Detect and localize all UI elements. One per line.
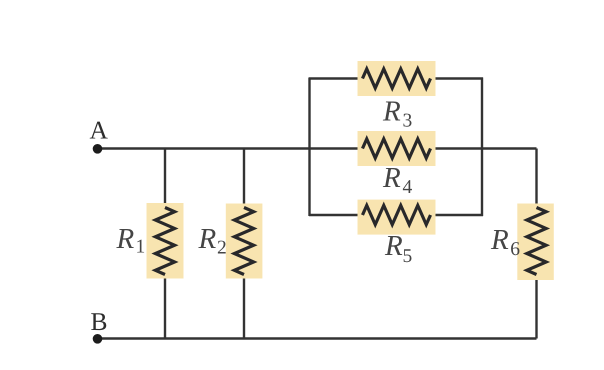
wire R6 branch top bbox=[535, 149, 537, 210]
resistor R3 bbox=[358, 61, 436, 96]
svg-text:4: 4 bbox=[403, 177, 413, 198]
wire R1 junction to R2 junction bbox=[165, 147, 244, 149]
label R2 bbox=[198, 223, 227, 259]
label R5 bbox=[384, 230, 412, 267]
svg-text:1: 1 bbox=[136, 237, 146, 258]
wire R2 branch bottom bbox=[243, 274, 245, 339]
resistor R4 bbox=[358, 131, 436, 166]
wire A to R1 junction bbox=[97, 147, 165, 149]
resistor R6 bbox=[517, 204, 554, 281]
wire parallel-group right vertical bbox=[481, 78, 483, 217]
wire R3 branch right bbox=[431, 77, 484, 79]
svg-text:R: R bbox=[490, 224, 509, 256]
wire R5 branch left bbox=[309, 214, 363, 216]
wire R2 branch top bbox=[243, 149, 245, 210]
svg-text:A: A bbox=[90, 116, 109, 145]
svg-text:5: 5 bbox=[403, 246, 413, 267]
node A bbox=[93, 144, 103, 154]
label R3 bbox=[382, 96, 412, 132]
svg-text:R: R bbox=[384, 230, 403, 262]
svg-text:2: 2 bbox=[217, 238, 227, 259]
resistor R5 bbox=[358, 200, 436, 235]
svg-text:R: R bbox=[116, 223, 135, 255]
wire R1 branch bottom bbox=[164, 274, 166, 339]
wire R3 branch left bbox=[309, 77, 363, 79]
resistor R1 bbox=[147, 203, 184, 279]
svg-text:R: R bbox=[198, 223, 217, 255]
wire parallel-group left vertical bbox=[308, 78, 310, 217]
label R6 bbox=[490, 224, 520, 260]
svg-text:6: 6 bbox=[510, 239, 520, 260]
resistor R2 bbox=[226, 204, 263, 279]
svg-text:B: B bbox=[91, 307, 108, 336]
wire R6 branch bottom bbox=[535, 274, 537, 339]
wire parallel-group left node to R4 bbox=[310, 147, 363, 149]
label R1 bbox=[116, 223, 146, 258]
wire R2 junction to parallel-group left node bbox=[244, 147, 310, 149]
wire R5 branch right bbox=[431, 214, 484, 216]
label R4 bbox=[382, 162, 413, 198]
wire bottom B to right corner bbox=[97, 337, 537, 339]
node B bbox=[93, 334, 103, 344]
svg-text:R: R bbox=[382, 162, 401, 194]
svg-text:3: 3 bbox=[403, 111, 413, 132]
wire R1 branch top bbox=[164, 149, 166, 210]
wire parallel-group right node to right corner bbox=[482, 147, 537, 149]
svg-text:R: R bbox=[382, 96, 401, 128]
wire R4 to parallel-group right node bbox=[431, 147, 483, 149]
